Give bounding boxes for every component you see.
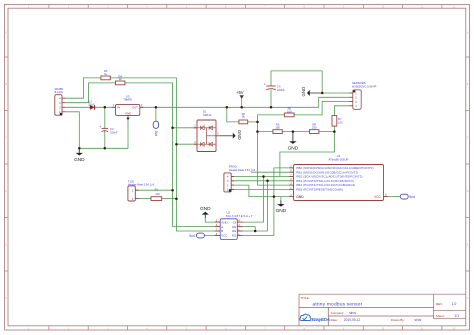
capacitor C4: [266, 85, 275, 87]
resistor R8: [310, 130, 319, 134]
svg-text:GND: GND: [276, 208, 287, 214]
wire sensor pin4 to R7: [334, 106, 349, 132]
wire GND bottom left: [65, 112, 128, 149]
junction dots: [78, 92, 336, 233]
resistor R7: [332, 116, 337, 127]
svg-text:250: 250: [275, 125, 280, 129]
ground arrow at sensor pin1 net: [310, 92, 322, 94]
resistor R6: [285, 113, 295, 117]
connector P2 SENSORS: [353, 90, 361, 109]
resistor R4: [116, 81, 125, 85]
svg-text:250: 250: [312, 125, 317, 129]
svg-text:100: 100: [287, 110, 292, 114]
header PROG: [224, 173, 231, 192]
wire +5V flag stem: [241, 99, 243, 108]
wire ADC net vertical to PB4 row: [258, 122, 289, 185]
svg-text:PROG: PROG: [229, 165, 237, 169]
title block: [299, 294, 466, 326]
wire C3 vertical: [104, 107, 106, 148]
svg-text:A: A: [221, 225, 223, 229]
svg-text:R1: R1: [155, 188, 159, 192]
svg-text:C4: C4: [277, 84, 281, 88]
wire MCU GND symbol branch: [280, 197, 282, 201]
regulator U3 78M05: [116, 104, 140, 115]
svg-text:WJ2EDGVC-5.08-4P: WJ2EDGVC-5.08-4P: [352, 85, 377, 89]
wire PB1 row: [251, 171, 289, 173]
svg-text:B: B: [221, 229, 223, 233]
wire R2 drop: [227, 107, 239, 122]
svg-text:GND: GND: [74, 157, 85, 163]
svg-text:GND: GND: [301, 87, 306, 97]
svg-text:+: +: [264, 83, 266, 87]
svg-text:1.0: 1.0: [452, 302, 457, 306]
wire D1 pin1 branch: [173, 127, 197, 129]
wire U2 GND to symbol: [205, 218, 220, 222]
svg-text:GND: GND: [296, 195, 304, 199]
svg-text:U4: U4: [337, 154, 341, 158]
svg-text:5vd: 5vd: [409, 195, 415, 199]
svg-text:SENSORS: SENSORS: [352, 81, 366, 85]
svg-text:5vd: 5vd: [189, 234, 195, 238]
wire sensor pin3 to R6: [248, 102, 350, 122]
svg-text:EasyEDA: EasyEDA: [312, 317, 331, 323]
ground at D1 pin3: [219, 135, 232, 137]
svg-text:D: D: [467, 190, 469, 193]
svg-text:C: C: [467, 136, 469, 139]
ground GND sensor divider: [292, 132, 294, 142]
wire U2 VCC to 5vd pill: [204, 235, 220, 237]
svg-text:1/1: 1/1: [454, 314, 459, 318]
svg-text:Sheet:: Sheet:: [436, 314, 445, 318]
net port 5vd at MCU VCC: [400, 194, 408, 199]
header T120 termination: [128, 186, 135, 201]
resistor R5: [273, 130, 282, 134]
transceiver U2 MAX487: [220, 219, 237, 240]
svg-text:+: +: [99, 125, 101, 129]
wire 5vd pill drop: [155, 107, 157, 121]
svg-text:D: D: [5, 190, 7, 193]
ground GND bottom left: [78, 148, 80, 153]
svg-text:RE: RE: [232, 229, 236, 233]
wire RS485 pin4 to R3 to B-line: [65, 78, 220, 231]
wire 24v input / +5V rail: [65, 97, 349, 107]
svg-text:100: 100: [155, 192, 160, 196]
svg-text:GND: GND: [237, 130, 242, 140]
svg-text:GND: GND: [288, 145, 299, 151]
svg-text:5vd: 5vd: [154, 131, 158, 137]
TVS array D1 SMF12: [197, 120, 216, 152]
MCU U4 ATtiny85: [294, 165, 384, 201]
wire T120 pin1 to R1: [135, 198, 151, 200]
ground GND at U2: [204, 215, 206, 218]
svg-text:slros: slros: [415, 318, 422, 322]
diode D2: [90, 105, 95, 110]
svg-text:GND: GND: [200, 206, 211, 212]
svg-text:attiny modbus sensor: attiny modbus sensor: [313, 302, 363, 308]
svg-text:REV:: REV:: [436, 302, 443, 306]
svg-text:Date:: Date:: [331, 318, 338, 322]
svg-text:MAX487ESA+T: MAX487ESA+T: [226, 214, 253, 218]
wire C4 drop: [270, 90, 272, 108]
wire PB3 net to U2 RE DE: [243, 181, 268, 231]
svg-text:OUT: OUT: [132, 106, 138, 110]
wire R7 net to PB2: [231, 132, 334, 177]
net port 5vd at U2 VCC: [196, 233, 204, 238]
svg-text:78M05: 78M05: [123, 98, 132, 102]
svg-text:GND: GND: [125, 112, 131, 116]
wire T120 pin2 to A-line: [135, 189, 172, 191]
svg-text:S1M: S1M: [88, 102, 93, 106]
svg-text:GND: GND: [221, 220, 227, 224]
capacitor C3: [102, 127, 109, 129]
svg-text:DE: DE: [232, 225, 236, 229]
svg-text:Company:: Company:: [331, 311, 345, 315]
svg-text:DI: DI: [233, 220, 236, 224]
wire PROG pin3 PB3 row: [231, 180, 289, 182]
wire PROG pin2 GND stair and MCU GND: [231, 185, 289, 197]
svg-text:R7: R7: [338, 117, 342, 121]
wire PB0 to U2 RO: [243, 168, 289, 236]
svg-text:B A 24v: B A 24v: [55, 91, 64, 94]
svg-text:100: 100: [338, 121, 343, 125]
svg-text:2019-09-12: 2019-09-12: [344, 318, 361, 322]
wire PROG pin1 PB5 row: [231, 188, 289, 190]
wire PB2 net to U2 DI: [243, 177, 264, 223]
wire R1 to B-line: [162, 198, 177, 200]
svg-text:VCC: VCC: [221, 234, 227, 238]
+5V power flag: [240, 95, 244, 99]
svg-text:TITLE:: TITLE:: [301, 296, 310, 300]
svg-text:+5V: +5V: [236, 90, 244, 95]
svg-text:C: C: [5, 136, 7, 139]
net port 5vd at regulator output: [153, 121, 158, 128]
EasyEDA logo: [300, 314, 331, 323]
wire C4 top loop to GND net: [271, 71, 350, 93]
wire R5 R8 GND row: [258, 131, 335, 133]
ground GND at MCU: [280, 200, 282, 204]
svg-text:IN: IN: [117, 106, 120, 110]
svg-text:220uF: 220uF: [277, 88, 285, 92]
svg-text:SMF12: SMF12: [203, 113, 212, 117]
svg-text:slros: slros: [349, 311, 356, 315]
svg-text:Header-Male 2.54_1x2: Header-Male 2.54_1x2: [128, 182, 155, 186]
wire MCU VCC to 5vd pill: [384, 196, 401, 198]
svg-text:Header-Male 2.54_1x4: Header-Male 2.54_1x4: [229, 168, 256, 172]
resistor R2: [239, 120, 248, 124]
svg-text:220uF: 220uF: [110, 131, 118, 135]
resistor R3: [101, 76, 110, 80]
svg-text:PB5 (PCINT5/RESET/ADC0/dW): PB5 (PCINT5/RESET/ADC0/dW): [296, 188, 343, 192]
svg-text:Drawn By:: Drawn By:: [391, 318, 405, 322]
svg-text:ATtiny85-20SUR: ATtiny85-20SUR: [329, 158, 349, 162]
wire RS485 pin3 to R4 to A-line: [65, 83, 220, 227]
wire D1 pin2 branch: [176, 143, 197, 145]
svg-text:VCC: VCC: [374, 195, 381, 199]
svg-text:C3: C3: [110, 127, 114, 131]
resistor R1: [151, 197, 162, 201]
connector P1 RS485: [55, 95, 62, 116]
